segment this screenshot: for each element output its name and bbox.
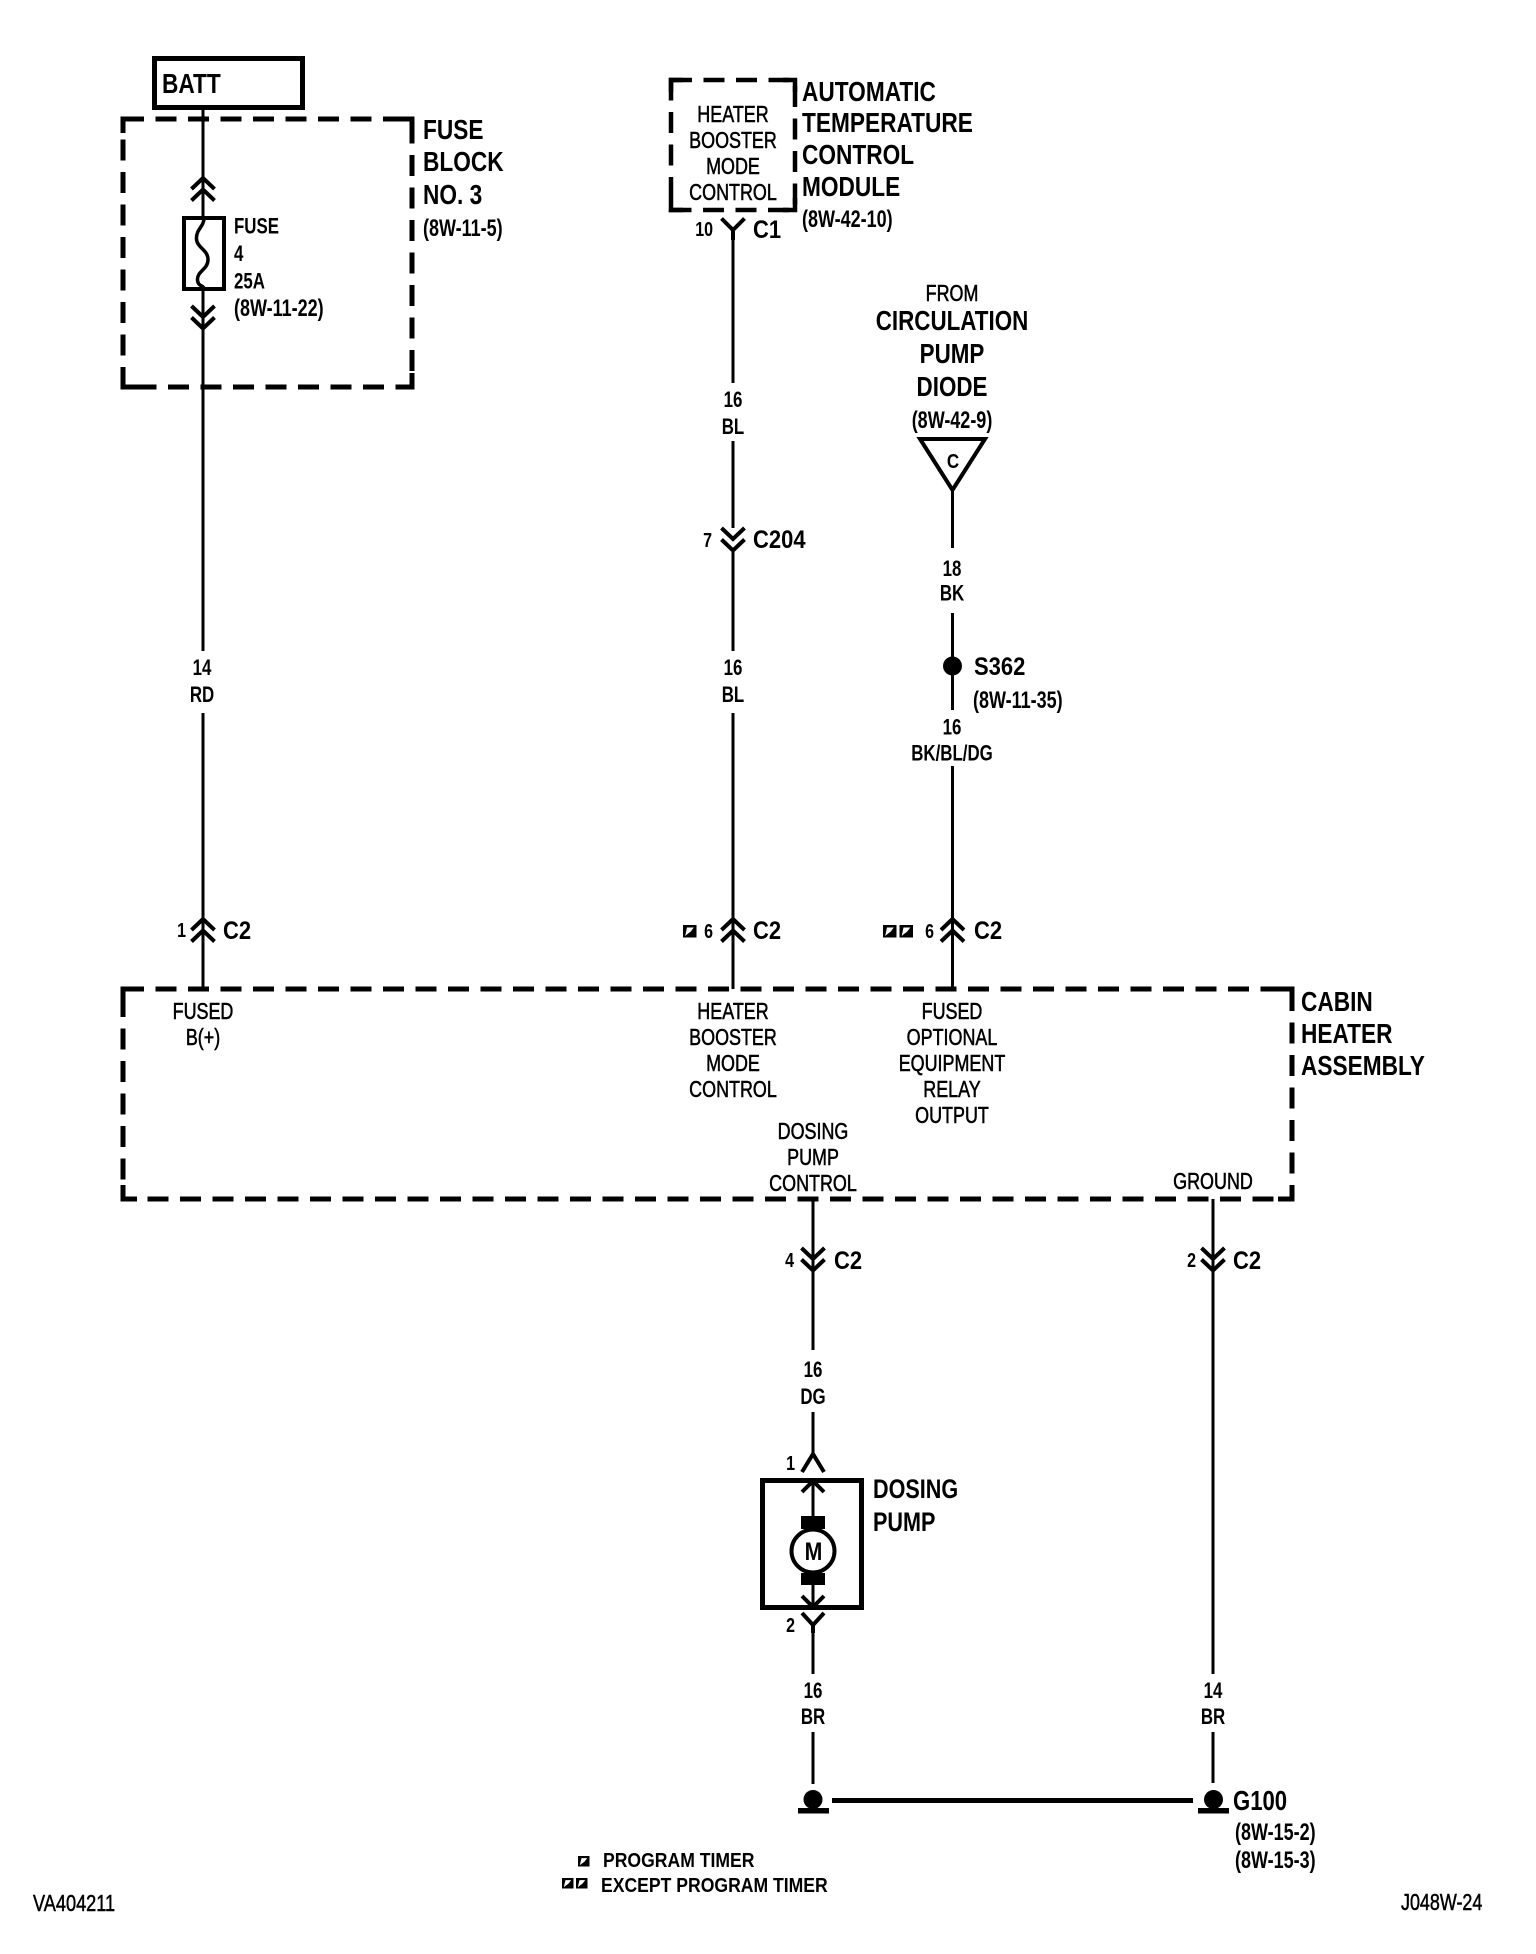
svg-text:VA404211: VA404211 [33,1891,115,1917]
svg-text:G100: G100 [1233,1786,1287,1817]
connector C2 pin 6 (program timer) [683,917,781,945]
svg-text:18: 18 [943,557,962,582]
svg-text:FUSED: FUSED [922,999,983,1025]
svg-text:2: 2 [786,1614,795,1636]
wire label 16 BR [801,1679,825,1730]
svg-text:MODE: MODE [706,154,760,180]
svg-text:PROGRAM TIMER: PROGRAM TIMER [603,1849,755,1871]
svg-text:BK: BK [940,581,965,606]
svg-text:6: 6 [925,920,934,942]
svg-text:25A: 25A [234,269,265,294]
svg-text:BLOCK: BLOCK [423,147,504,178]
svg-text:BATT: BATT [162,69,221,100]
svg-text:1: 1 [177,919,186,941]
wire: BATT to fuse F4 [202,110,205,218]
svg-text:FROM: FROM [926,281,979,307]
wire: C1 to C204 (16 BL) [732,231,735,528]
svg-text:PUMP: PUMP [873,1508,935,1538]
svg-text:GROUND: GROUND [1173,1169,1253,1195]
svg-text:AUTOMATIC: AUTOMATIC [802,77,936,108]
connector C2 pin 6 (except program timer) [883,917,1002,945]
wire: fuse F4 to connector C2 pin 1 (14 RD) [202,289,205,989]
svg-text:HEATER: HEATER [697,999,768,1025]
connector: dosing pump pin 1 [786,1452,824,1474]
fuse F4 value label [234,214,324,321]
svg-text:C2: C2 [834,1247,862,1275]
connector C2 pin 1 [177,917,251,945]
svg-text:RD: RD [190,683,214,708]
svg-text:(8W-15-2): (8W-15-2) [1235,1820,1316,1846]
svg-text:1: 1 [786,1452,795,1474]
svg-text:BOOSTER: BOOSTER [689,1025,777,1051]
svg-text:2: 2 [1187,1249,1196,1271]
svg-text:16: 16 [804,1358,823,1383]
svg-text:C204: C204 [753,526,806,554]
wire label 14 RD [190,656,214,708]
svg-text:C1: C1 [753,216,781,244]
svg-text:MODE: MODE [706,1051,760,1077]
wire: diode connector to splice S362 (18 BK) [951,490,954,657]
svg-text:C2: C2 [1233,1247,1261,1275]
svg-text:CONTROL: CONTROL [689,180,777,206]
svg-text:CONTROL: CONTROL [769,1171,857,1197]
ground symbol (dosing pump leg) [798,1790,829,1814]
svg-text:DG: DG [800,1385,825,1410]
wire label 18 BK [940,557,965,606]
svg-text:DIODE: DIODE [917,372,988,403]
svg-text:16: 16 [804,1679,823,1704]
svg-text:BL: BL [722,415,744,440]
svg-text:C2: C2 [753,917,781,945]
wire label 16 BL [722,388,744,440]
power feed node BATT [155,59,303,108]
svg-text:DOSING: DOSING [873,1475,958,1505]
svg-text:M: M [805,1537,823,1565]
cabin heater assembly enclosure [123,989,1292,1199]
connector C2 pin 2 [1187,1247,1261,1275]
connector C204 pin 7 [703,526,805,554]
svg-text:BR: BR [801,1705,825,1730]
splice S362 [943,653,1063,714]
svg-text:HEATER: HEATER [697,102,768,128]
svg-text:16: 16 [724,388,743,413]
svg-text:FUSE: FUSE [423,115,483,146]
ATC module output label [689,102,777,206]
wire: dosing pump to ground (16 BR) [812,1633,815,1784]
wire: C204 to C2 pin 6 (16 BL) [732,550,735,989]
dosing pump case [763,1481,862,1608]
svg-text:(8W-15-3): (8W-15-3) [1235,1848,1316,1874]
legend: program timer [578,1849,755,1871]
svg-text:MODULE: MODULE [802,172,900,203]
svg-text:PUMP: PUMP [920,339,985,370]
svg-text:BR: BR [1201,1705,1225,1730]
off-page connector C (from circulation pump diode) [920,439,985,490]
pin function: fused optional equipment relay output [899,999,1006,1129]
svg-text:NO. 3: NO. 3 [423,180,482,211]
wire label 16 DG [800,1358,825,1410]
svg-text:PUMP: PUMP [787,1145,839,1171]
connector chevrons: fuse block output [192,306,215,329]
circulation pump diode source label [876,281,1029,434]
svg-text:4: 4 [234,242,243,267]
svg-text:CONTROL: CONTROL [689,1077,777,1103]
svg-text:TEMPERATURE: TEMPERATURE [802,108,973,139]
svg-text:BL: BL [722,683,744,708]
fuse block no. 3 enclosure [123,119,412,387]
svg-text:C2: C2 [974,917,1002,945]
svg-text:HEATER: HEATER [1301,1019,1393,1050]
dosing pump name label [873,1475,958,1538]
svg-text:(8W-11-22): (8W-11-22) [234,296,324,322]
wire label 16 BL (lower) [722,656,744,708]
wire label 16 BK/BL/DG [911,715,993,766]
dosing pump motor M [792,1481,835,1607]
svg-text:EQUIPMENT: EQUIPMENT [899,1051,1006,1077]
legend: except program timer [562,1874,828,1896]
wire: S362 to C2 pin 6 (16 BK/BL/DG) [951,675,954,989]
pin function: fused B(+) [173,999,234,1051]
connector C2 pin 4 [785,1247,862,1275]
svg-text:FUSED: FUSED [173,999,234,1025]
ground bus wire [832,1798,1193,1803]
fuse block no. 3 name label [423,115,504,242]
svg-text:16: 16 [943,715,962,740]
wire: C2 pin 4 to dosing pump pin 1 [812,1412,815,1455]
connector C1 pin 10 [695,216,781,244]
svg-text:10: 10 [695,218,713,240]
wire label 14 BR [1201,1679,1225,1730]
svg-text:J048W-24: J048W-24 [1401,1890,1482,1916]
pin function: ground [1173,1169,1253,1195]
ATC module name label [802,77,973,233]
svg-text:6: 6 [704,920,713,942]
ATC module enclosure (heater booster mode control) [671,80,795,210]
svg-text:B(+): B(+) [186,1025,220,1051]
pin function: heater booster mode control [689,999,777,1103]
svg-text:CABIN: CABIN [1301,987,1373,1018]
connector: dosing pump pin 2 [786,1613,824,1636]
svg-text:RELAY: RELAY [923,1077,981,1103]
svg-text:14: 14 [193,656,212,681]
wire: cabin heater to C2 pin 4 [812,1199,815,1350]
svg-text:EXCEPT PROGRAM TIMER: EXCEPT PROGRAM TIMER [601,1874,828,1896]
wire: cabin heater ground to C2 pin 2 [1212,1199,1215,1350]
svg-text:S362: S362 [974,653,1025,681]
svg-text:(8W-11-5): (8W-11-5) [423,216,503,242]
svg-text:14: 14 [1204,1679,1223,1704]
svg-text:(8W-11-35): (8W-11-35) [973,688,1063,714]
svg-text:16: 16 [724,656,743,681]
connector chevrons: fuse block feed [192,178,215,201]
svg-text:BK/BL/DG: BK/BL/DG [911,741,993,766]
svg-text:FUSE: FUSE [234,214,279,239]
svg-text:C2: C2 [223,917,251,945]
svg-text:(8W-42-10): (8W-42-10) [802,207,893,233]
footer sheet number VA404211 [33,1891,115,1917]
svg-text:BOOSTER: BOOSTER [689,128,777,154]
svg-text:CIRCULATION: CIRCULATION [876,306,1029,337]
footer sheet code J048W-24 [1401,1890,1482,1916]
ground G100 [1198,1786,1316,1874]
svg-text:OUTPUT: OUTPUT [915,1103,989,1129]
svg-text:4: 4 [785,1249,794,1271]
cabin heater assembly name label [1301,987,1425,1082]
fuse F4 25A [184,218,224,289]
wire: C2 pin 2 to ground G100 (14 BR) [1212,1271,1215,1783]
svg-text:(8W-42-9): (8W-42-9) [912,408,993,434]
svg-text:OPTIONAL: OPTIONAL [907,1025,998,1051]
svg-text:7: 7 [703,529,712,551]
pin function: dosing pump control [769,1119,857,1197]
svg-text:CONTROL: CONTROL [802,140,914,171]
svg-text:ASSEMBLY: ASSEMBLY [1301,1051,1425,1082]
svg-text:C: C [947,450,959,473]
svg-text:DOSING: DOSING [778,1119,849,1145]
